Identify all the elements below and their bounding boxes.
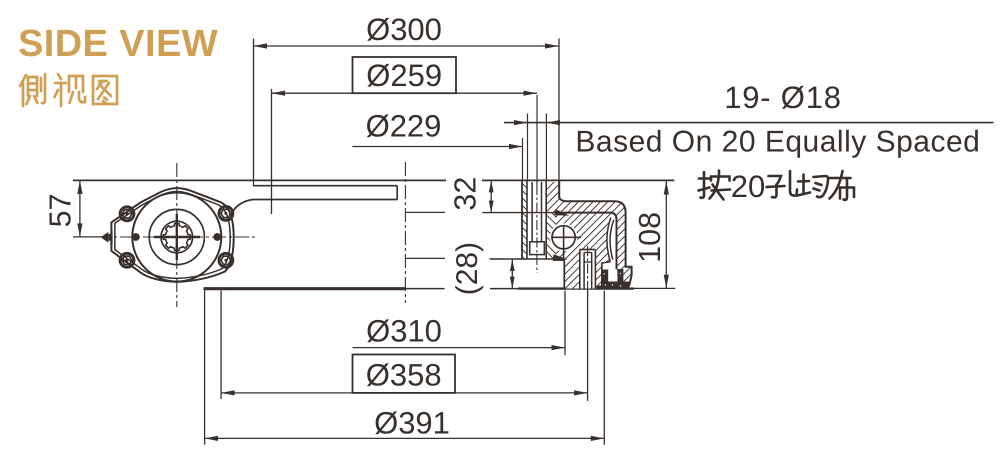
outer ring bolt shank [531, 182, 533, 242]
gearbox bottom plate thick line [204, 287, 406, 290]
ball crosshair [551, 236, 581, 238]
hex bolt bottom-left [120, 253, 134, 267]
housing middle circle [149, 209, 204, 264]
outer ring right edge [558, 181, 560, 199]
svg-text:32: 32 [448, 177, 482, 211]
inner ring bolt channel white [580, 250, 596, 289]
plug dot left [132, 234, 139, 241]
svg-text:(28): (28) [451, 242, 484, 295]
arm upper inner line [253, 185, 397, 187]
svg-text:108: 108 [633, 212, 667, 263]
arm bottom line [234, 200, 398, 211]
extension line Ø229 right [522, 138, 524, 181]
L-ring inner edge / seam line [556, 213, 617, 270]
hex bolt bottom-right [219, 253, 233, 267]
dimension Ø358 boxed [221, 392, 587, 394]
bolt end line [532, 241, 541, 243]
inner ring left edge [563, 260, 565, 288]
svg-text:Ø300: Ø300 [366, 12, 442, 47]
32 lower extension and raceway seam [482, 212, 557, 214]
inner ring profile arcs [607, 218, 611, 262]
note chinese 按20孔均布 (drawn strokes) with 20 as text [699, 171, 855, 200]
housing large circle [132, 193, 221, 282]
seal band / L-ring hatch [560, 198, 632, 289]
grease fitting [101, 232, 109, 243]
hole axis centerline [536, 185, 538, 273]
center mark cross [154, 236, 200, 238]
hole edge extension right [545, 114, 547, 182]
hole right wall [545, 181, 547, 259]
plug dot right [214, 234, 221, 241]
spline bore [163, 223, 190, 250]
housing outline octagon [111, 188, 233, 282]
57 bottom extension [73, 236, 105, 238]
extension Ø310 [564, 291, 566, 356]
top face line [73, 179, 446, 181]
arm end edge [396, 186, 398, 200]
extension Ø391 right [603, 291, 605, 445]
ball clearance [550, 224, 577, 251]
svg-text:SIDE VIEW: SIDE VIEW [18, 23, 218, 65]
dimension Ø259 boxed [353, 57, 457, 93]
slewing axis centerline [404, 162, 406, 303]
hex bolt top-left [120, 207, 134, 221]
raceway arrow lower [553, 254, 568, 260]
svg-text:Ø229: Ø229 [366, 109, 442, 144]
outer ring hatch right of hole [546, 182, 559, 213]
svg-text:19- Ø18: 19- Ø18 [724, 80, 842, 115]
bolt lower washer rect [530, 242, 545, 255]
extension line Ø259 right (bolt circle) [536, 95, 538, 185]
ring bottom edge [518, 287, 634, 289]
hole edge extension left [527, 114, 529, 182]
outer ring left edge [521, 181, 523, 259]
extension Ø358 right [587, 291, 589, 401]
inner ring right lower edge [602, 262, 611, 289]
housing inner circle [161, 221, 193, 253]
extension Ø358 left [220, 291, 222, 399]
hole left wall [526, 181, 528, 259]
svg-text:20: 20 [731, 169, 765, 204]
outer ring hatch left strip [522, 182, 527, 259]
108 bottom extension [634, 287, 675, 289]
raceway arrow upper [554, 209, 569, 216]
inner bolt shank [583, 253, 585, 289]
svg-text:57: 57 [44, 193, 78, 227]
L-ring outer edge [559, 197, 631, 286]
housing cover inner line [115, 191, 230, 278]
svg-text:Ø310: Ø310 [366, 314, 442, 349]
svg-text:Ø259: Ø259 [366, 58, 442, 93]
housing vertical centerline [176, 163, 178, 307]
inner ring hatch mass [556, 213, 611, 289]
title chinese 侧视图 (drawn strokes) [20, 74, 117, 106]
inner bolt axis centerline [587, 246, 589, 297]
extension Ø391 left [204, 291, 206, 445]
ball [552, 226, 575, 249]
extension line Ø259 left [271, 89, 273, 214]
step line y259 [490, 258, 554, 260]
extension line Ø300 right / flange corner [558, 39, 560, 182]
housing horizontal centerline [97, 236, 258, 238]
outer ring hatch left of ball [546, 213, 556, 259]
hex bolt top-right [219, 206, 233, 220]
extension line Ø300 left [253, 39, 255, 186]
bottom line right segments [405, 288, 444, 290]
svg-text:Ø358: Ø358 [366, 358, 442, 393]
svg-text:Ø391: Ø391 [374, 406, 450, 441]
seal dark profile [597, 269, 630, 289]
svg-text:Based On 20 Equally Spaced: Based On 20 Equally Spaced [575, 126, 980, 159]
inner bolt channel walls [579, 250, 581, 289]
